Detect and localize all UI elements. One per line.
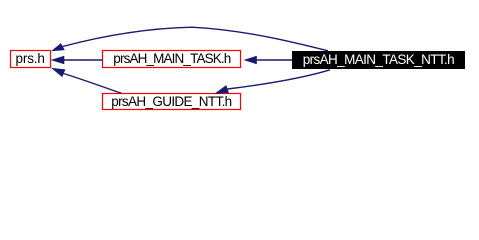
svg-text:prsAH_MAIN_TASK_NTT.h: prsAH_MAIN_TASK_NTT.h bbox=[303, 52, 455, 67]
svg-text:prsAH_MAIN_TASK.h: prsAH_MAIN_TASK.h bbox=[113, 51, 231, 66]
svg-text:prs.h: prs.h bbox=[15, 51, 45, 66]
svg-text:prsAH_GUIDE_NTT.h: prsAH_GUIDE_NTT.h bbox=[111, 94, 232, 109]
